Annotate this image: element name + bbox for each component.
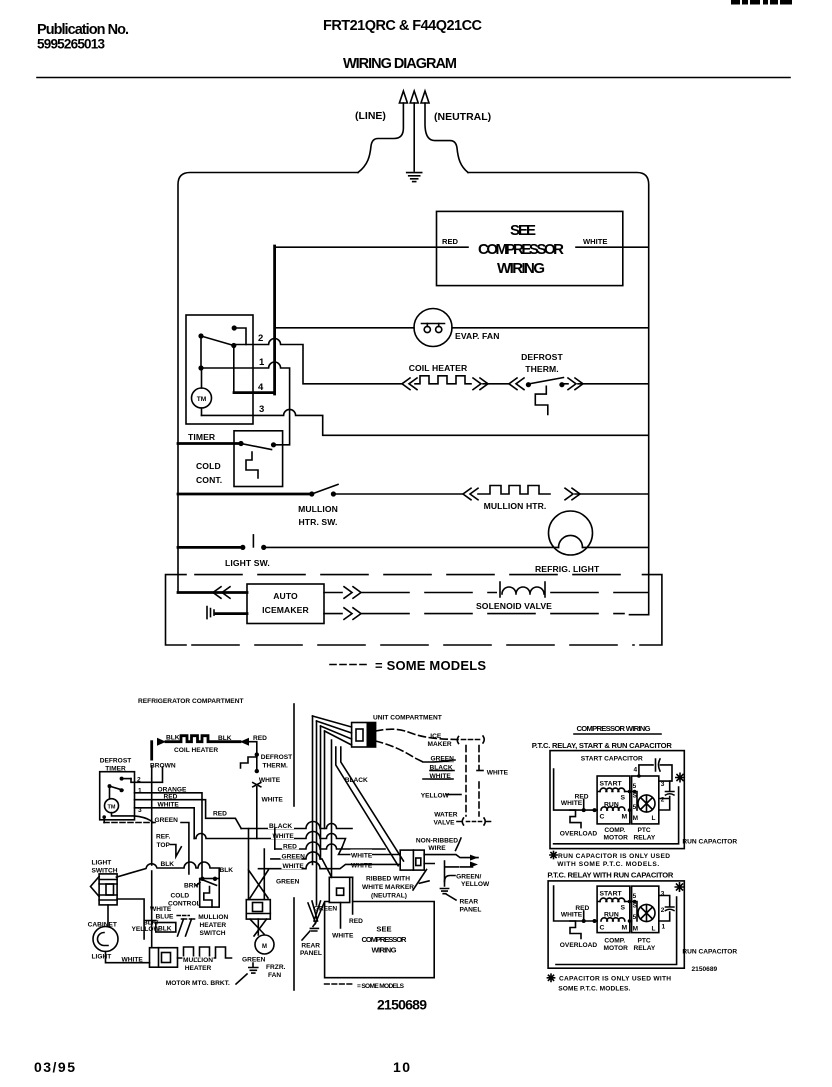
coil heater L: right arrow xyxy=(240,738,249,746)
legend some models L xyxy=(325,983,352,985)
unit connector xyxy=(352,723,376,748)
svg-text:M: M xyxy=(622,925,628,932)
start winding D1 xyxy=(600,788,625,791)
svg-text:= SOME MODELS: = SOME MODELS xyxy=(375,658,486,673)
svg-text:S: S xyxy=(621,795,626,802)
svg-text:VALVE: VALVE xyxy=(434,820,456,827)
svg-text:TM: TM xyxy=(197,396,207,403)
svg-text:(NEUTRAL): (NEUTRAL) xyxy=(371,893,407,900)
svg-text:MULLION: MULLION xyxy=(183,957,213,964)
svg-text:WATER: WATER xyxy=(434,812,458,819)
svg-text:4: 4 xyxy=(634,767,638,774)
wire BLK from light switch xyxy=(116,862,219,879)
svg-text:PTC: PTC xyxy=(638,827,651,834)
coil heater L: left arrow xyxy=(157,738,166,746)
svg-text:WHITE: WHITE xyxy=(430,773,452,780)
svg-text:2: 2 xyxy=(258,333,263,344)
svg-text:REAR: REAR xyxy=(301,943,320,950)
overload D1 xyxy=(570,810,581,828)
some models dashed box right bracket xyxy=(640,575,662,645)
wire RED to compressor box xyxy=(275,246,468,248)
ptc relay box D2 xyxy=(632,886,659,933)
footnote D1 xyxy=(550,851,557,858)
svg-text:GREEN: GREEN xyxy=(242,957,266,964)
wire pin3 / defrost feed xyxy=(202,409,649,435)
wire cabinet light white xyxy=(106,952,150,963)
svg-text:THERM.: THERM. xyxy=(263,763,288,770)
header rule xyxy=(37,77,790,79)
svg-text:GREEN: GREEN xyxy=(314,906,338,913)
svg-text:RED: RED xyxy=(164,794,178,801)
ground symbol xyxy=(407,173,422,182)
svg-text:BLK: BLK xyxy=(218,735,232,742)
svg-text:RUN CAPACITOR: RUN CAPACITOR xyxy=(682,949,737,956)
svg-text:CAPACITOR IS ONLY USED WITH: CAPACITOR IS ONLY USED WITH xyxy=(559,976,671,983)
mullion heater switch symbol xyxy=(177,915,189,917)
svg-text:HEATER: HEATER xyxy=(185,965,212,972)
svg-text:LIGHT SW.: LIGHT SW. xyxy=(225,558,270,568)
svg-text:SWITCH: SWITCH xyxy=(92,868,118,875)
bus wire WHITE2 xyxy=(259,862,401,869)
svg-text:REFRIGERATOR COMPARTMENT: REFRIGERATOR COMPARTMENT xyxy=(138,698,244,705)
line supply arrow 1 xyxy=(358,103,403,173)
svg-text:REFRIG. LIGHT: REFRIG. LIGHT xyxy=(535,564,600,574)
svg-text:1: 1 xyxy=(259,357,265,368)
mullion heater L element xyxy=(178,947,232,958)
svg-text:GREEN: GREEN xyxy=(282,853,306,860)
svg-text:WHITE: WHITE xyxy=(158,802,180,809)
svg-text:REF.: REF. xyxy=(156,834,170,841)
comp motor box D1 xyxy=(597,776,630,824)
svg-text:CONTROL: CONTROL xyxy=(168,901,201,908)
start capacitor symbol xyxy=(639,765,653,776)
svg-text:OVERLOAD: OVERLOAD xyxy=(560,831,598,838)
bus wire BLACK xyxy=(241,822,352,829)
timer L arm xyxy=(108,784,112,788)
start winding D2 xyxy=(600,898,625,901)
svg-text:GREEN/: GREEN/ xyxy=(456,874,481,881)
svg-text:START: START xyxy=(600,781,623,788)
funnel to rear panel left xyxy=(308,901,324,923)
ptc relay box D1 xyxy=(632,776,659,824)
wire coil heater to defrost therm xyxy=(246,742,257,755)
footnote D2 xyxy=(547,974,554,981)
svg-text:1: 1 xyxy=(662,924,666,931)
mullion heater element xyxy=(478,486,550,495)
bus wire GREEN xyxy=(271,852,332,877)
cold control L box xyxy=(200,879,220,908)
timer internal wire C down to pin4 xyxy=(233,346,235,393)
wire to refrig light xyxy=(264,546,559,548)
run capacitor bracket D1 xyxy=(554,787,679,844)
auto icemaker box xyxy=(247,584,324,624)
svg-text:OVERLOAD: OVERLOAD xyxy=(560,942,598,949)
cold control contacts xyxy=(238,441,243,446)
svg-text:FRT21QRC & F44Q21CC: FRT21QRC & F44Q21CC xyxy=(323,18,483,34)
comp motor box D2 xyxy=(597,886,630,933)
svg-text:NON-RIBBED: NON-RIBBED xyxy=(416,838,458,845)
svg-text:S: S xyxy=(621,905,626,912)
ground supply arrow 2 xyxy=(413,103,415,171)
mullion heater switch contacts xyxy=(309,491,314,496)
svg-text:WHITE: WHITE xyxy=(259,777,281,784)
wire red xyxy=(135,800,242,829)
svg-text:RUN CAPACITOR: RUN CAPACITOR xyxy=(682,839,737,846)
coil heater L: element xyxy=(166,736,240,742)
svg-text:RED: RED xyxy=(283,844,297,851)
svg-text:5: 5 xyxy=(633,914,637,921)
wire white drop to bus xyxy=(256,787,258,839)
wire blk vertical down to mullion heater xyxy=(151,779,153,865)
svg-text:MOTOR: MOTOR xyxy=(604,945,629,952)
svg-text:PANEL: PANEL xyxy=(300,950,322,957)
svg-text:EVAP. FAN: EVAP. FAN xyxy=(455,331,500,341)
ptc disc D2 xyxy=(638,905,655,922)
svg-text:5: 5 xyxy=(633,804,637,811)
star D1 xyxy=(676,773,684,781)
svg-text:TIMER: TIMER xyxy=(105,766,126,773)
svg-text:WHITE: WHITE xyxy=(262,797,284,804)
timer motor TM xyxy=(105,799,119,813)
svg-text:BLK: BLK xyxy=(166,735,180,742)
icemaker feed arrows xyxy=(213,587,230,599)
unit connector fan-in diagonals xyxy=(313,716,352,745)
svg-text:LIGHT: LIGHT xyxy=(92,954,112,961)
label BROWN xyxy=(149,761,172,769)
svg-text:LIGHT: LIGHT xyxy=(92,860,112,867)
bus wire RED xyxy=(275,842,385,849)
motor plug diagonals above xyxy=(249,870,269,898)
diagram1 outer box xyxy=(550,751,684,849)
svg-text:RED: RED xyxy=(442,237,459,246)
wire white bus to plug xyxy=(339,848,401,855)
timer internal wire B-D xyxy=(200,336,202,368)
defrost thermostat L xyxy=(255,752,259,756)
svg-text:2: 2 xyxy=(661,797,665,804)
svg-text:WIRING: WIRING xyxy=(497,260,545,277)
svg-text:10: 10 xyxy=(393,1059,410,1075)
svg-text:GREEN: GREEN xyxy=(155,817,179,824)
wire green dashed xyxy=(104,822,152,824)
svg-text:2: 2 xyxy=(661,907,665,914)
svg-text:RED: RED xyxy=(349,918,363,925)
svg-text:WHITE: WHITE xyxy=(283,863,305,870)
see compressor wiring box L xyxy=(325,902,435,978)
svg-text:BLACK: BLACK xyxy=(345,777,368,784)
diagram2 outer box xyxy=(548,881,684,968)
svg-text:DEFROST: DEFROST xyxy=(100,758,132,765)
some models dashed box left bracket xyxy=(166,575,187,645)
motor plug connector xyxy=(246,900,270,920)
svg-text:HEATER: HEATER xyxy=(200,922,227,929)
verticals from connector to bus xyxy=(313,716,325,905)
motor plug to frzr fan xyxy=(250,919,267,936)
wire pin2 to coil heater xyxy=(234,339,402,384)
svg-text:SEE: SEE xyxy=(376,925,391,934)
star D2 xyxy=(675,883,683,891)
svg-text:WHITE MARKER: WHITE MARKER xyxy=(362,884,414,891)
svg-text:3: 3 xyxy=(661,781,665,788)
svg-text:DEFROST: DEFROST xyxy=(521,352,563,362)
run winding D2 xyxy=(601,918,625,921)
main enclosure outline right/top xyxy=(468,173,649,615)
svg-text:UNIT COMPARTMENT: UNIT COMPARTMENT xyxy=(373,715,442,722)
main wire D1 xyxy=(554,769,632,810)
defrost timer box xyxy=(100,772,135,820)
svg-text:WHITE: WHITE xyxy=(351,863,373,870)
long diagonal D2 xyxy=(341,747,404,861)
mullion heater L plug xyxy=(150,948,178,968)
non-ribbed plug xyxy=(400,850,424,870)
inline connector xyxy=(253,783,261,787)
refrig light lamp xyxy=(549,511,593,555)
svg-text:WHITE: WHITE xyxy=(273,833,295,840)
svg-text:SEE: SEE xyxy=(510,222,536,239)
svg-text:MULLION: MULLION xyxy=(298,504,338,514)
svg-text:(NEUTRAL): (NEUTRAL) xyxy=(434,111,491,123)
svg-text:WHITE: WHITE xyxy=(561,800,583,807)
wire mullion heater switch feed xyxy=(178,493,312,496)
dashed verticals to water valve xyxy=(466,746,479,816)
legend some models xyxy=(330,664,368,666)
defrost thermostat arrows xyxy=(509,378,524,390)
timer L contact top xyxy=(120,777,124,781)
svg-text:YELLOW: YELLOW xyxy=(461,881,490,888)
wire light switch feed xyxy=(178,546,243,549)
svg-text:WHITE: WHITE xyxy=(332,933,354,940)
see compressor wiring box xyxy=(437,211,623,285)
svg-text:TM: TM xyxy=(108,805,116,811)
wire main feed thick vertical xyxy=(273,246,276,394)
svg-text:RED: RED xyxy=(213,811,227,818)
svg-text:COIL HEATER: COIL HEATER xyxy=(409,363,468,373)
svg-text:WIRING DIAGRAM: WIRING DIAGRAM xyxy=(343,56,457,72)
svg-text:TOP: TOP xyxy=(157,842,171,849)
some models dashed bottom xyxy=(192,644,634,646)
svg-text:WHITE: WHITE xyxy=(561,911,583,918)
svg-text:COMP.: COMP. xyxy=(604,938,625,945)
svg-text:COLD: COLD xyxy=(171,893,190,900)
wire pin1 to cold control xyxy=(201,362,290,445)
cold control box xyxy=(234,431,283,487)
cabinet light xyxy=(93,927,118,952)
svg-text:BLACK: BLACK xyxy=(269,823,292,830)
bus wire WHITE xyxy=(194,832,345,848)
svg-text:FRZR.: FRZR. xyxy=(266,964,286,971)
wire left edge to cold control thick xyxy=(178,442,241,445)
svg-text:HTR. SW.: HTR. SW. xyxy=(299,517,338,527)
svg-text:CONT.: CONT. xyxy=(196,475,222,485)
overload D2 xyxy=(570,921,581,939)
svg-text:RELAY: RELAY xyxy=(634,835,656,842)
svg-text:5995265013: 5995265013 xyxy=(37,37,105,52)
ground rear panel right xyxy=(440,889,448,894)
svg-text:3: 3 xyxy=(259,404,264,415)
svg-text:C: C xyxy=(600,814,605,821)
svg-text:SOME P.T.C. MODLES.: SOME P.T.C. MODLES. xyxy=(558,986,630,993)
svg-text:L: L xyxy=(652,815,656,822)
wire cluster link xyxy=(117,899,156,939)
wire evap fan feed xyxy=(275,327,414,329)
svg-text:L: L xyxy=(652,926,656,933)
svg-text:START: START xyxy=(600,891,623,898)
wire pin4 thick xyxy=(234,391,275,394)
top-right clipped text xyxy=(731,0,740,5)
bus red feed vertical xyxy=(274,829,276,850)
svg-text:GREEN: GREEN xyxy=(431,756,455,763)
svg-text:M: M xyxy=(622,814,628,821)
wire pin2 to brown xyxy=(131,766,163,782)
svg-text:RIBBED WITH: RIBBED WITH xyxy=(366,876,410,883)
run capacitor bracket D2 xyxy=(556,897,677,965)
defrost thermostat bimetal step xyxy=(535,386,548,414)
svg-text:MOTOR MTG. BRKT.: MOTOR MTG. BRKT. xyxy=(166,980,230,987)
svg-text:GREEN: GREEN xyxy=(276,879,300,886)
mullion heater arrows xyxy=(463,488,478,500)
svg-text:TIMER: TIMER xyxy=(188,432,216,442)
svg-text:M: M xyxy=(633,926,638,933)
svg-text:PTC: PTC xyxy=(638,938,651,945)
wire icemaker feed xyxy=(178,591,247,594)
bus labels xyxy=(268,821,294,829)
compartment divider line xyxy=(293,704,295,806)
wire brown drop xyxy=(150,742,153,766)
svg-text:ICEMAKER: ICEMAKER xyxy=(262,605,309,615)
svg-text:WHITE: WHITE xyxy=(351,853,373,860)
coil heater arrows and element xyxy=(402,378,417,390)
run winding D1 xyxy=(601,807,625,810)
svg-text:03/95: 03/95 xyxy=(34,1059,75,1075)
svg-text:(LINE): (LINE) xyxy=(355,110,386,122)
svg-text:SWITCH: SWITCH xyxy=(200,930,226,937)
svg-text:ICE: ICE xyxy=(430,733,442,740)
svg-text:C: C xyxy=(600,925,605,932)
svg-text:= SOME MODELS: = SOME MODELS xyxy=(357,983,405,990)
svg-text:MAKER: MAKER xyxy=(428,741,452,748)
wires green black white xyxy=(423,760,455,779)
svg-text:RELAY: RELAY xyxy=(634,945,656,952)
svg-text:MULLION HTR.: MULLION HTR. xyxy=(484,501,547,511)
svg-text:BLK: BLK xyxy=(158,926,172,933)
svg-text:MULLION: MULLION xyxy=(198,914,228,921)
svg-text:COMP.: COMP. xyxy=(604,827,625,834)
svg-text:YELLOW: YELLOW xyxy=(421,793,450,800)
icemaker out wires with arrows xyxy=(324,592,342,594)
svg-text:CABINET: CABINET xyxy=(88,922,117,929)
red drop D1 xyxy=(583,800,585,811)
svg-text:WITH SOME P.T.C. MODELS.: WITH SOME P.T.C. MODELS. xyxy=(557,861,659,868)
svg-text:BLK: BLK xyxy=(220,867,234,874)
coil heater right arrows xyxy=(473,378,488,390)
timer motor TM xyxy=(201,368,203,388)
svg-text:RUN CAPACITOR IS ONLY USED: RUN CAPACITOR IS ONLY USED xyxy=(558,853,670,860)
svg-text:P.T.C. RELAY, START & RUN CAPA: P.T.C. RELAY, START & RUN CAPACITOR xyxy=(532,741,673,750)
svg-text:BLACK: BLACK xyxy=(430,765,453,772)
svg-text:M: M xyxy=(633,815,638,822)
ptc disc D1 xyxy=(638,795,655,812)
svg-text:COLD: COLD xyxy=(196,461,221,471)
timer box xyxy=(186,315,253,424)
svg-text:SOLENOID VALVE: SOLENOID VALVE xyxy=(476,601,552,611)
long diagonal D1 xyxy=(336,747,398,866)
icemaker dashed wires xyxy=(376,729,458,739)
wire WHITE from compressor box xyxy=(576,246,649,248)
timer contact B arm xyxy=(198,333,203,338)
wire white to bus xyxy=(135,808,195,839)
svg-text:MOTOR: MOTOR xyxy=(604,835,629,842)
svg-text:COMPRESSOR WIRING: COMPRESSOR WIRING xyxy=(577,724,651,733)
plug out wires xyxy=(424,855,478,858)
svg-text:WHITE: WHITE xyxy=(487,770,509,777)
svg-text:WHITE: WHITE xyxy=(122,957,144,964)
bundle verticals to motor plug xyxy=(249,829,265,900)
svg-text:COMPRESSOR: COMPRESSOR xyxy=(362,935,408,944)
svg-text:DEFROST: DEFROST xyxy=(261,754,293,761)
svg-text:FAN: FAN xyxy=(268,972,281,979)
svg-text:2150689: 2150689 xyxy=(377,997,427,1013)
svg-text:ORANGE: ORANGE xyxy=(158,787,188,794)
label RED 2 xyxy=(212,808,229,817)
svg-text:WIRING: WIRING xyxy=(372,946,397,955)
svg-text:2150689: 2150689 xyxy=(692,966,718,973)
svg-text:BLK: BLK xyxy=(161,861,175,868)
svg-text:COMPRESSOR: COMPRESSOR xyxy=(478,241,564,258)
neutral supply arrow 3 xyxy=(425,103,468,173)
main wire D2 xyxy=(554,886,632,921)
wires into see box xyxy=(341,877,353,928)
small connector on see box xyxy=(329,877,349,902)
svg-text:WIRE: WIRE xyxy=(428,845,446,852)
evap fan motor xyxy=(414,309,452,347)
main enclosure outline left/top xyxy=(178,173,358,593)
svg-text:THERM.: THERM. xyxy=(525,364,559,374)
icemaker water sensor symbol xyxy=(207,607,214,619)
svg-text:5: 5 xyxy=(633,783,637,790)
timer contact A xyxy=(232,325,237,330)
vertical to small connector xyxy=(331,740,333,877)
freezer fan xyxy=(255,935,274,954)
light switch contacts xyxy=(240,545,245,550)
cold control bellows step xyxy=(246,452,258,478)
pin2 + run capacitor D1 xyxy=(659,781,674,810)
svg-text:START CAPACITOR: START CAPACITOR xyxy=(581,755,643,762)
wire light switch to cabinet light xyxy=(107,905,109,927)
svg-text:WHITE: WHITE xyxy=(583,237,607,246)
svg-text:PANEL: PANEL xyxy=(460,907,482,914)
svg-text:3: 3 xyxy=(661,891,665,898)
some models dashed top xyxy=(195,574,634,576)
svg-text:5: 5 xyxy=(633,893,637,900)
svg-text:M: M xyxy=(262,944,267,950)
plug bottom diagonal xyxy=(413,870,427,891)
solenoid valve coil xyxy=(497,586,544,599)
svg-text:S: S xyxy=(633,903,638,910)
svg-text:S: S xyxy=(633,793,638,800)
light switch L xyxy=(99,874,117,905)
svg-text:COIL HEATER: COIL HEATER xyxy=(174,747,218,754)
svg-text:AUTO: AUTO xyxy=(273,591,298,601)
dashed wire to solenoid xyxy=(362,592,649,594)
wire orange xyxy=(135,793,203,877)
svg-text:P.T.C. RELAY WITH RUN CAPACITO: P.T.C. RELAY WITH RUN CAPACITOR xyxy=(547,871,674,880)
defrost thermostat contacts xyxy=(526,382,531,387)
svg-text:REAR: REAR xyxy=(460,899,479,906)
